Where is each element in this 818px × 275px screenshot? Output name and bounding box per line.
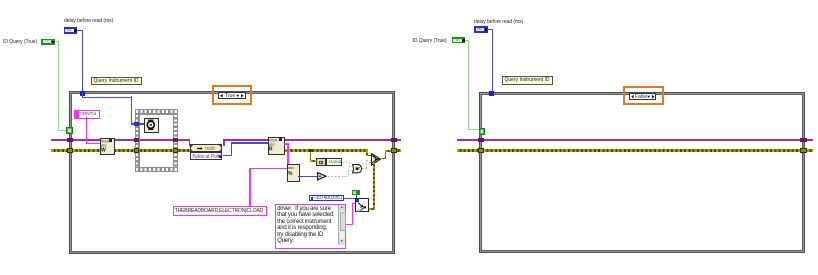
tunnel: blue on top border xyxy=(489,91,494,96)
TF boolean terminal xyxy=(452,37,466,43)
Match Pattern icon xyxy=(287,164,301,182)
label: ID Query (True) xyxy=(3,39,37,45)
olive wire stubs + main runs xyxy=(51,149,67,152)
wire: pink from *IDN to VISA Write xyxy=(86,117,87,144)
svg-text:R: R xyxy=(269,147,273,153)
wire: pink from VISA Read down to Match Pattern xyxy=(284,143,289,144)
wire: pale green from TF down to case selector xyxy=(55,41,60,42)
VISA Write icon xyxy=(100,138,115,155)
Select node xyxy=(371,153,381,165)
wire: green dashed from comparison to OR xyxy=(328,176,349,177)
string constant THEBREADBOARD,ELECTRONICLOAD xyxy=(173,206,267,216)
VISA Read icon xyxy=(268,137,286,155)
tunnel: blue on top border xyxy=(80,91,85,96)
wires: olive select output to tunnel xyxy=(380,158,386,160)
Wait (ms) icon xyxy=(144,118,159,133)
orange highlight rectangle (True) xyxy=(212,85,252,105)
I32 numeric terminal xyxy=(474,26,488,33)
error code constant -1074003951 xyxy=(309,195,344,201)
wire: blue from I32 to case top tunnel xyxy=(77,30,83,31)
Unbundle by name: status xyxy=(316,158,326,167)
svg-text:W: W xyxy=(101,148,106,154)
junction dot on olive wire xyxy=(309,149,312,152)
TF boolean terminal (ID Query) xyxy=(41,39,55,45)
svg-text:abc: abc xyxy=(288,166,294,170)
case structure (False case) xyxy=(479,92,805,254)
string constant *IDN?\n xyxy=(74,110,101,119)
tunnels purple/olive on left wall xyxy=(67,138,74,143)
property node (Instr / Bytes at Port) xyxy=(190,144,222,152)
tunnels purple/olive on left & right wall xyxy=(478,138,485,143)
olive wire across the False case xyxy=(457,149,478,152)
driver text box xyxy=(275,204,346,249)
wire: blue from I32 to case top tunnel xyxy=(488,29,494,30)
True selector label xyxy=(218,92,246,99)
Less-than-0 comparison xyxy=(317,172,327,180)
bundle error node xyxy=(355,198,369,212)
label: delay before read (ms) xyxy=(64,18,113,24)
label: delay before read (ms) xyxy=(474,19,523,25)
wires: olive into select (top input) xyxy=(366,151,368,156)
pink wire from driver textbox to bundle xyxy=(344,224,353,225)
label: Query Instrument ID xyxy=(502,76,553,85)
I32 numeric terminal (delay before read) xyxy=(64,27,78,34)
wires: olive bundle up to select bottom input xyxy=(373,162,375,210)
wire: pale green from TF to case selector xyxy=(465,40,469,41)
wire blue tunnel to wait icon xyxy=(139,123,144,124)
wire: blue Bytes at Port to VISA Read xyxy=(223,155,232,156)
case selector tunnel (green) xyxy=(479,128,486,135)
purple wire stubs + main runs xyxy=(51,139,67,141)
label: ID Query (True) xyxy=(413,38,447,44)
case structure (True case) xyxy=(69,91,396,254)
case selector tunnel (green) xyxy=(66,127,73,134)
orange highlight rectangle (False) xyxy=(623,86,664,105)
True boolean constant xyxy=(352,190,360,196)
label: Query Instrument ID xyxy=(91,77,142,86)
svg-text:%: % xyxy=(288,171,293,177)
wire: pink from constant up to Match Pattern xyxy=(249,168,250,207)
wire: olive drop to unbundle xyxy=(310,152,312,161)
wire: green dashed from status to OR xyxy=(342,162,351,163)
False selector label xyxy=(629,93,657,100)
purple wire across the False case xyxy=(457,139,478,141)
OR gate xyxy=(352,164,362,173)
flat sequence structure xyxy=(135,109,179,115)
wire: green dashed OR out to select xyxy=(362,168,368,169)
sequence tunnels xyxy=(134,122,139,127)
wire: blue inside case to sequence xyxy=(82,92,83,98)
wire: blue match result xyxy=(298,176,317,177)
wire: blue constant to bundle xyxy=(344,198,356,199)
tunnels on right wall of left case xyxy=(391,138,398,143)
